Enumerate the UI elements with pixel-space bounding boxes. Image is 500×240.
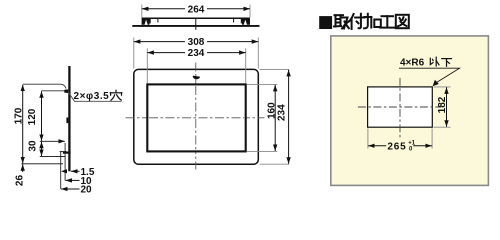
dim 234 width — [147, 52, 245, 54]
vertical centerline — [195, 63, 197, 170]
kanji hole (ana) — [110, 90, 122, 100]
svg-text:30: 30 — [28, 140, 39, 152]
left end wall — [141, 18, 143, 25]
ext lines for 264 — [141, 5, 143, 18]
re-draw centerlines inside opening — [149, 117, 244, 119]
tori — [334, 15, 349, 28]
left clip block — [142, 19, 151, 25]
extension line at hole 1 — [42, 90, 65, 92]
latch blob — [193, 76, 200, 80]
cutout rectangle — [368, 87, 433, 127]
tsuke — [350, 14, 365, 29]
dim 264 — [142, 8, 250, 10]
short ledge line y151.6 — [60, 151, 67, 153]
dim 234 height — [288, 70, 290, 164]
side plate (thick vertical) — [68, 66, 70, 171]
zu — [396, 15, 409, 28]
recess opening (thick rect) — [147, 84, 245, 151]
right clip tick — [240, 19, 242, 24]
horizontal centerline — [126, 117, 265, 119]
extension line A — [60, 152, 62, 189]
svg-text:234: 234 — [277, 104, 288, 121]
extension line y156 — [40, 155, 66, 157]
leader to hole 1 — [69, 93, 122, 101]
right clip block — [241, 19, 250, 25]
dim 1.5 — [71, 170, 80, 172]
ext lines for 182 — [434, 86, 451, 88]
svg-text:308: 308 — [188, 37, 205, 48]
flange baseline (thick) — [132, 25, 259, 27]
left inner tick — [157, 19, 159, 23]
title bullet — [319, 16, 332, 29]
dim 308 — [134, 41, 258, 43]
ext lines for 308 — [133, 38, 135, 69]
ext lines right side — [260, 68, 290, 70]
hole 1 mark — [64, 89, 68, 93]
center tick — [195, 19, 197, 30]
svg-text:182: 182 — [437, 96, 448, 113]
cutout horizontal centerline — [358, 106, 442, 108]
kou — [380, 16, 394, 27]
extension line y164 — [22, 163, 64, 165]
leader underline — [399, 68, 460, 84]
ext lines for 265 — [367, 129, 369, 149]
bottom lip (thick step) — [63, 152, 71, 154]
hole 2 mark — [66, 118, 68, 124]
kanji ika (below) — [430, 57, 451, 66]
dim 170 — [22, 85, 24, 164]
dim 160 height — [274, 85, 276, 151]
dim 120 — [41, 91, 43, 141]
svg-text:170: 170 — [13, 107, 24, 124]
machining panel (cream) — [331, 36, 489, 186]
dim 26 (arrow up to y164) — [22, 164, 24, 172]
right inner tick — [233, 19, 235, 23]
leader arrowhead — [433, 80, 439, 87]
dim 20 — [61, 188, 80, 190]
dim 265 — [368, 145, 432, 147]
svg-text:20: 20 — [81, 185, 93, 195]
svg-text:26: 26 — [15, 175, 26, 187]
svg-text:4×R6: 4×R6 — [400, 58, 425, 69]
cutout vertical centerline — [399, 78, 401, 142]
tray top edge — [142, 17, 250, 19]
svg-text:234: 234 — [188, 48, 205, 59]
svg-text:2×φ3.5: 2×φ3.5 — [74, 91, 110, 102]
dim 182 — [446, 87, 448, 127]
dim 10 — [65, 179, 79, 181]
ext lines for 234 width — [146, 48, 148, 83]
outer flange (rounded rect) — [134, 69, 258, 164]
svg-text:120: 120 — [27, 108, 38, 125]
extension line top (to hole 1, with jog) — [23, 84, 66, 88]
dim 30 — [41, 142, 43, 156]
ka — [364, 14, 381, 29]
title kanji: tori-tsuke-ka-kou-zu — [334, 14, 409, 29]
svg-text:264: 264 — [188, 4, 205, 15]
svg-text:265: 265 — [387, 142, 406, 153]
extension line B — [64, 143, 66, 181]
extension line y141 with arrow — [40, 140, 65, 142]
